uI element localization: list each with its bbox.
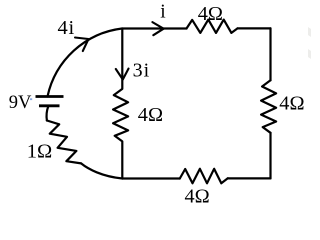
wire battery bottom to resistor R1 bbox=[47, 106, 49, 120]
svg-text:4Ω: 4Ω bbox=[198, 3, 223, 25]
resistor R5 4ohm bottom bbox=[180, 169, 228, 184]
svg-text:4Ω: 4Ω bbox=[138, 104, 163, 126]
resistor R1 1ohm diagonal bbox=[47, 121, 81, 164]
svg-text:4Ω: 4Ω bbox=[279, 92, 304, 114]
artifact faint marks right edge bbox=[308, 27, 311, 59]
wire right side lower bbox=[269, 133, 271, 179]
battery B1 top plate bbox=[36, 95, 64, 98]
svg-text:4i: 4i bbox=[58, 17, 76, 39]
arrow i on top wire bbox=[152, 22, 163, 35]
svg-text:3i: 3i bbox=[133, 60, 151, 82]
arrow 3i on middle branch bbox=[116, 69, 129, 80]
svg-text:9V: 9V bbox=[9, 93, 32, 113]
wire right side upper bbox=[269, 28, 271, 80]
resistor R3 4ohm right bbox=[261, 80, 276, 133]
arrow 4i on curved wire bbox=[75, 38, 89, 52]
top wire node A to top resistor bbox=[122, 27, 187, 29]
artifact blue speck left of battery bbox=[30, 98, 32, 100]
bottom wire left segment bbox=[122, 177, 180, 179]
middle branch wire with resistor R4 4ohm bbox=[113, 29, 128, 179]
resistor R2 4ohm top bbox=[187, 20, 238, 33]
bottom wire right segment bbox=[228, 177, 271, 179]
svg-text:4Ω: 4Ω bbox=[185, 186, 210, 205]
wire battery top curved to node A bbox=[48, 29, 123, 97]
svg-text:i: i bbox=[160, 1, 166, 22]
wire resistor R1 to node B bbox=[81, 163, 122, 178]
svg-text:1Ω: 1Ω bbox=[27, 141, 53, 163]
battery B1 bottom plate bbox=[39, 104, 60, 107]
wire top resistor to top right corner bbox=[238, 27, 271, 29]
